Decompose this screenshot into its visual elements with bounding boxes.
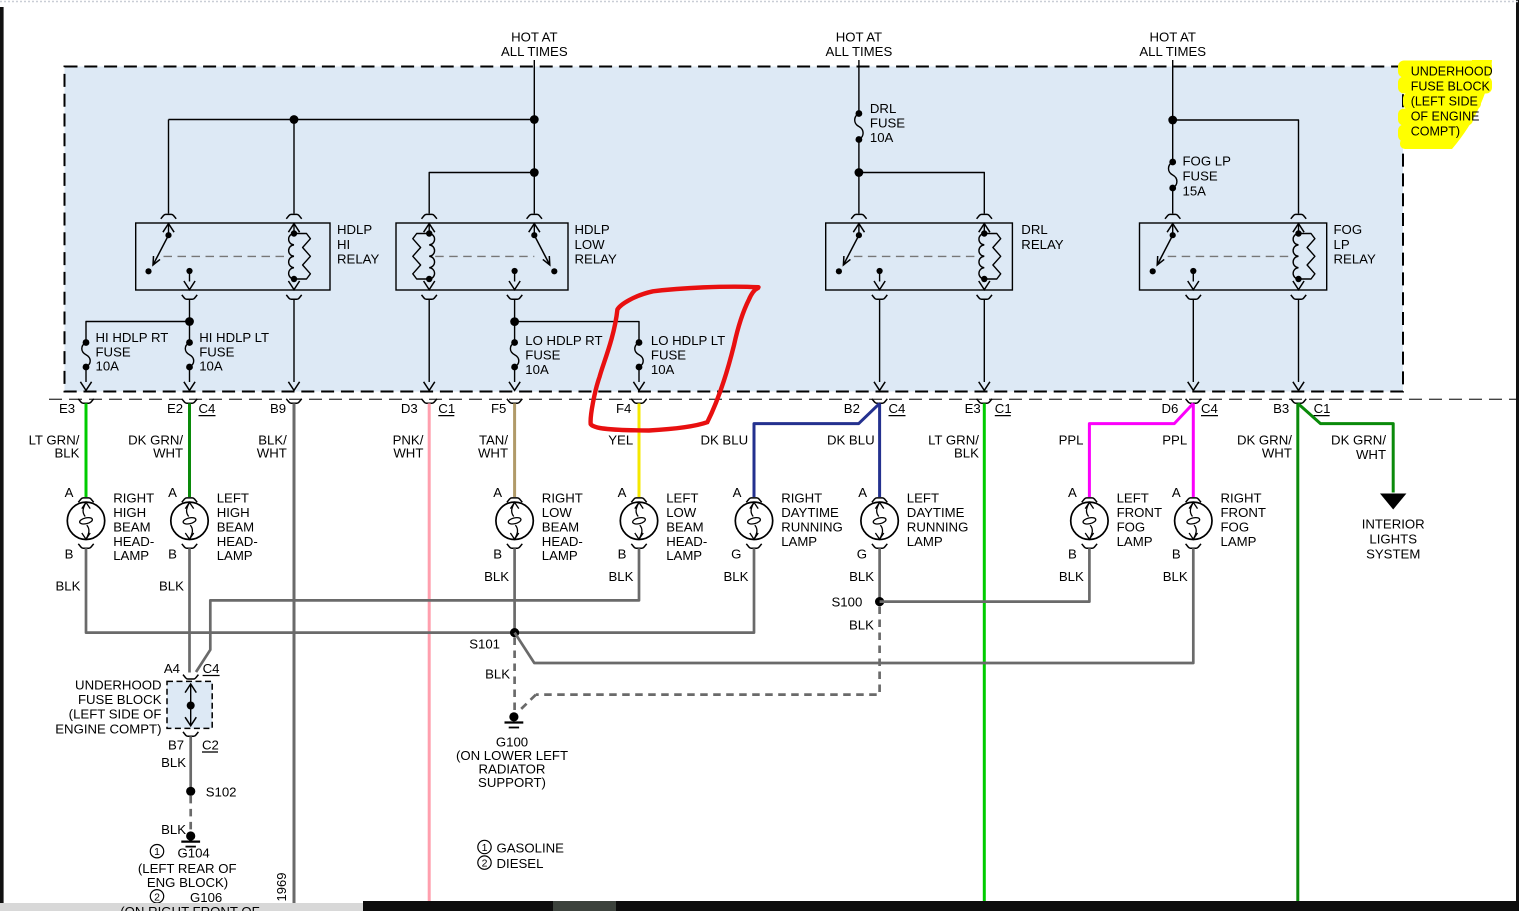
relay DRL RELAY coil pin (bottom)	[983, 279, 985, 282]
svg-text:ENG BLOCK): ENG BLOCK)	[147, 875, 228, 890]
svg-text:LAMP: LAMP	[113, 548, 149, 563]
svg-text:A: A	[733, 485, 742, 500]
wire BLK/WHT (B9 down page)	[293, 403, 296, 903]
wire branch to LO HDLP LT fuse	[515, 322, 639, 343]
svg-text:LAMP: LAMP	[781, 534, 817, 549]
svg-text:BLK: BLK	[484, 569, 509, 584]
lamp LEFT DAYTIME RUNNING LAMP connector A (top)	[872, 498, 887, 502]
svg-text:BLK: BLK	[485, 667, 510, 682]
relay HDLP HI RELAY mechanical link (dashed)	[164, 255, 289, 257]
svg-text:B: B	[65, 547, 74, 562]
relay HDLP LOW RELAY output pin (bottom)	[507, 295, 522, 299]
lamp LEFT FRONT FOG LAMP	[1071, 502, 1108, 539]
svg-text:10A: 10A	[870, 130, 894, 145]
wire ground bus right-high-beam to right-daytime (through S101)	[86, 548, 754, 632]
wire right low beam ground drop	[513, 548, 516, 632]
lamp RIGHT LOW BEAM HEADLAMP connector B (bottom)	[507, 544, 522, 548]
svg-text:YEL: YEL	[608, 432, 633, 447]
svg-text:BEAM: BEAM	[217, 519, 254, 534]
relay HDLP LOW RELAY box	[396, 223, 568, 290]
svg-text:BLK: BLK	[723, 569, 748, 584]
svg-text:FUSE BLOCK: FUSE BLOCK	[78, 692, 162, 707]
svg-text:LAMP: LAMP	[666, 548, 702, 563]
svg-text:HOT AT: HOT AT	[511, 30, 557, 45]
svg-text:F5: F5	[491, 401, 506, 416]
svg-text:10A: 10A	[525, 362, 549, 377]
svg-text:WHT: WHT	[1262, 446, 1292, 461]
node junction above LO HDLP fuses	[510, 317, 519, 326]
lamp RIGHT FRONT FOG LAMP connector B (bottom)	[1186, 544, 1201, 548]
label HI HDLP RT FUSE 10A	[96, 330, 169, 374]
relay HDLP HI RELAY output contact	[186, 268, 192, 274]
svg-text:LOW: LOW	[542, 505, 573, 520]
svg-text:FOG: FOG	[1334, 222, 1363, 237]
svg-text:A4: A4	[164, 661, 180, 676]
relay DRL RELAY switch	[856, 232, 862, 238]
wire DRL relay output to pin B2	[879, 299, 881, 382]
svg-text:A: A	[493, 485, 502, 500]
lamp LEFT DAYTIME RUNNING LAMP connector G (bottom)	[872, 544, 887, 548]
svg-text:BLK: BLK	[954, 446, 979, 461]
wire BLK B7 to S102	[189, 736, 192, 788]
node splice S101	[510, 628, 519, 637]
node splice S102	[186, 787, 195, 796]
underhood fuse block region (dashed box, light blue)	[65, 67, 1404, 392]
svg-text:15A: 15A	[1183, 184, 1207, 199]
relay FOG LP RELAY mechanical link (dashed)	[1168, 255, 1293, 257]
lamp RIGHT HIGH BEAM HEADLAMP	[67, 502, 104, 539]
svg-text:DAYTIME: DAYTIME	[781, 505, 839, 520]
connector pin E3/C1	[979, 382, 990, 391]
svg-text:ALL TIMES: ALL TIMES	[1139, 44, 1206, 59]
svg-text:HEAD-: HEAD-	[542, 534, 583, 549]
svg-text:C4: C4	[203, 661, 220, 676]
svg-text:RIGHT: RIGHT	[1221, 491, 1262, 506]
relay HDLP HI RELAY coil pin (top)	[286, 214, 301, 218]
relay HDLP HI RELAY coil pin (bottom)	[293, 279, 295, 282]
label FOG LP FUSE 15A	[1183, 154, 1232, 199]
bottom black bar	[363, 901, 1519, 911]
svg-text:BLK: BLK	[55, 579, 80, 594]
svg-text:(ON RIGHT FRONT OF: (ON RIGHT FRONT OF	[120, 904, 259, 911]
pin labels row	[59, 401, 1330, 416]
relay HDLP HI RELAY coil	[289, 234, 294, 280]
lamp LEFT FRONT FOG LAMP connector B (bottom)	[1082, 544, 1097, 548]
relay HDLP HI RELAY switch	[165, 232, 171, 238]
legend gasoline / diesel	[478, 840, 564, 871]
svg-text:LEFT: LEFT	[666, 491, 698, 506]
wire HDLP LOW relay output to fuses	[514, 299, 516, 321]
svg-text:S102: S102	[206, 785, 237, 800]
svg-text:LO HDLP RT: LO HDLP RT	[525, 333, 602, 348]
svg-text:HI HDLP RT: HI HDLP RT	[96, 330, 169, 345]
lamp RIGHT FRONT FOG LAMP connector A (top)	[1186, 498, 1201, 502]
svg-text:HI HDLP LT: HI HDLP LT	[199, 330, 269, 345]
wire DK GRN/WHT (B3 to interior lights system)	[1298, 403, 1393, 492]
lamp RIGHT LOW BEAM HEADLAMP connector A (top)	[507, 498, 522, 502]
wire feed to DRL relay switch pin	[858, 173, 860, 214]
svg-text:HIGH: HIGH	[217, 505, 250, 520]
svg-text:ALL TIMES: ALL TIMES	[501, 44, 568, 59]
svg-text:LAMP: LAMP	[542, 548, 578, 563]
svg-text:BLK: BLK	[608, 569, 633, 584]
svg-text:RELAY: RELAY	[1334, 252, 1376, 267]
svg-text:C2: C2	[202, 737, 219, 752]
node splice S100	[875, 597, 884, 606]
svg-text:BLK: BLK	[1059, 569, 1084, 584]
svg-text:C4: C4	[1201, 401, 1218, 416]
wire FOG relay coil to pin B3	[1298, 299, 1300, 382]
svg-text:FUSE: FUSE	[525, 348, 560, 363]
fuse FOG LP FUSE 15A	[1169, 159, 1176, 166]
wire LT GRN/BLK (DRL coil E3 down page)	[983, 403, 986, 911]
lamp LEFT LOW BEAM HEADLAMP connector A (top)	[631, 498, 646, 502]
wire DK BLU (B2 to left daytime running lamp)	[878, 403, 881, 497]
svg-text:RELAY: RELAY	[337, 252, 379, 267]
svg-text:FUSE: FUSE	[199, 344, 234, 359]
svg-text:BEAM: BEAM	[113, 519, 150, 534]
svg-text:G104: G104	[178, 846, 210, 861]
underhood fuse block (lower, dashed box)	[167, 681, 212, 728]
label HOT AT ALL TIMES (feed 3)	[1139, 30, 1206, 60]
wire HDLP LOW relay coil to pin D3	[428, 299, 430, 382]
connector A4/C4 into lower fuse block	[183, 675, 198, 679]
svg-text:10A: 10A	[199, 359, 223, 374]
svg-text:LP: LP	[1334, 237, 1350, 252]
svg-text:FOG LP: FOG LP	[1183, 154, 1232, 169]
wire PNK/WHT (D3 down page)	[428, 403, 431, 901]
svg-text:LAMP: LAMP	[1117, 534, 1153, 549]
svg-text:BLK: BLK	[161, 755, 186, 770]
svg-text:HOT AT: HOT AT	[1149, 30, 1195, 45]
connector pin D3/C1	[424, 382, 435, 391]
svg-text:UNDERHOOD: UNDERHOOD	[1411, 65, 1493, 79]
svg-text:COMPT): COMPT)	[1411, 125, 1460, 139]
svg-text:A: A	[618, 485, 627, 500]
svg-text:A: A	[65, 485, 74, 500]
svg-text:HDLP: HDLP	[337, 222, 372, 237]
svg-text:LAMP: LAMP	[217, 548, 253, 563]
svg-text:SUPPORT): SUPPORT)	[478, 775, 546, 790]
connector pin E3	[80, 382, 91, 391]
red hand-drawn marker circle around LO HDLP LT FUSE	[591, 287, 759, 431]
bottom grey bar	[0, 903, 363, 911]
wire HI HDLP RT fuse to pin E3	[85, 367, 87, 382]
relay HDLP HI RELAY output pin (bottom)	[182, 295, 197, 299]
relay DRL RELAY coil pin (top)	[977, 214, 992, 218]
lamp RIGHT DAYTIME RUNNING LAMP	[735, 502, 772, 539]
svg-text:(LEFT SIDE OF: (LEFT SIDE OF	[69, 707, 162, 722]
svg-text:1: 1	[154, 846, 160, 858]
connector pin F5	[509, 382, 520, 391]
svg-text:WHT: WHT	[393, 446, 423, 461]
svg-text:RELAY: RELAY	[1021, 237, 1063, 252]
svg-text:HI: HI	[337, 237, 350, 252]
svg-text:HEAD-: HEAD-	[113, 534, 154, 549]
svg-text:2: 2	[482, 858, 488, 870]
svg-text:FUSE: FUSE	[651, 348, 686, 363]
relay FOG LP RELAY output contact	[1190, 268, 1196, 274]
svg-text:WHT: WHT	[1356, 447, 1386, 462]
svg-text:G106: G106	[190, 890, 222, 905]
svg-text:DAYTIME: DAYTIME	[907, 505, 965, 520]
svg-text:RUNNING: RUNNING	[907, 519, 969, 534]
relay DRL RELAY box	[826, 223, 1013, 290]
wire feed junction to FOG LP fuse	[1172, 120, 1174, 162]
svg-text:S101: S101	[469, 637, 500, 652]
wire to HI HDLP LT fuse	[189, 322, 191, 343]
wire BLK dashed S101 to G100	[513, 638, 516, 713]
wire branch to HI HDLP RT fuse	[86, 322, 190, 343]
svg-text:G: G	[731, 547, 741, 562]
svg-text:B: B	[1068, 547, 1077, 562]
wire feed 1 vertical from HOT AT ALL TIMES	[533, 60, 535, 173]
relay FOG LP RELAY switch pin (top)	[1165, 214, 1180, 218]
wire DRL relay coil to pin E3	[983, 299, 985, 382]
relay DRL RELAY mechanical link (dashed)	[854, 255, 979, 257]
fuse LO HDLP LT FUSE 10A	[636, 339, 643, 346]
svg-text:C4: C4	[199, 401, 216, 416]
lamp RIGHT DAYTIME RUNNING LAMP connector A (top)	[746, 498, 761, 502]
svg-text:HIGH: HIGH	[113, 505, 146, 520]
relay FOG LP RELAY coil pin (bottom)	[1298, 279, 1300, 282]
ground G104	[186, 831, 195, 840]
lamp LEFT HIGH BEAM HEADLAMP connector B (bottom)	[182, 544, 197, 548]
svg-text:BLK: BLK	[849, 569, 874, 584]
svg-text:OF ENGINE: OF ENGINE	[1411, 110, 1480, 124]
svg-text:LAMP: LAMP	[907, 534, 943, 549]
svg-text:HEAD-: HEAD-	[217, 534, 258, 549]
svg-text:FUSE: FUSE	[870, 116, 905, 131]
relay DRL RELAY switch pin (top)	[851, 214, 866, 218]
wire DK GRN/WHT (E2 to left high beam)	[188, 403, 191, 497]
svg-text:LOW: LOW	[575, 237, 606, 252]
wire S101 jog to right front fog lamp	[515, 548, 1194, 663]
svg-text:DIESEL: DIESEL	[497, 856, 544, 871]
label G100 (ON LOWER LEFT RADIATOR SUPPORT)	[456, 734, 568, 790]
svg-text:DK BLU: DK BLU	[700, 432, 748, 447]
label LO HDLP RT FUSE 10A	[525, 333, 602, 377]
svg-text:FRONT: FRONT	[1221, 505, 1266, 520]
node feed junction for HDLP LOW coil	[530, 168, 539, 177]
fuse DRL FUSE 10A	[856, 110, 863, 117]
wire drop to HDLP HI relay switch pin	[168, 120, 170, 214]
relay HDLP HI RELAY switch pin (top)	[161, 214, 176, 218]
svg-text:B: B	[493, 547, 502, 562]
svg-text:B: B	[168, 547, 177, 562]
svg-text:E3: E3	[59, 401, 75, 416]
svg-text:UNDERHOOD: UNDERHOOD	[75, 678, 161, 693]
svg-text:10A: 10A	[96, 359, 120, 374]
relay FOG LP RELAY switch	[1170, 232, 1176, 238]
wire FOG LP fuse to relay switch pin	[1172, 188, 1174, 214]
svg-text:D6: D6	[1162, 401, 1179, 416]
page border left	[0, 7, 4, 906]
relay DRL RELAY output contact	[877, 268, 883, 274]
svg-text:PPL: PPL	[1059, 432, 1084, 447]
svg-text:BEAM: BEAM	[542, 519, 579, 534]
svg-text:C1: C1	[1314, 401, 1331, 416]
lamp LEFT FRONT FOG LAMP connector A (top)	[1082, 498, 1097, 502]
ground G100	[509, 712, 518, 721]
wire TAN/WHT (F5 to right low beam)	[513, 403, 516, 497]
svg-text:A: A	[168, 485, 177, 500]
relay FOG LP RELAY coil pin (top)	[1291, 214, 1306, 218]
svg-text:C4: C4	[889, 401, 906, 416]
svg-text:A: A	[1068, 485, 1077, 500]
svg-text:(LEFT REAR OF: (LEFT REAR OF	[138, 861, 237, 876]
svg-text:DK BLU: DK BLU	[827, 432, 875, 447]
svg-text:BEAM: BEAM	[666, 519, 703, 534]
top faint dotted line	[0, 1, 1519, 3]
connector pin B2/C4	[874, 382, 885, 391]
label UNDERHOOD FUSE BLOCK (LEFT SIDE OF ENGINE COMPT)	[55, 678, 161, 737]
wire FOG relay output to pin D6	[1192, 299, 1194, 382]
svg-text:FUSE BLOCK: FUSE BLOCK	[1411, 80, 1491, 94]
lamp LEFT LOW BEAM HEADLAMP connector B (bottom)	[631, 544, 646, 548]
svg-text:LOW: LOW	[666, 505, 697, 520]
wire LO HDLP LT fuse to pin F4	[638, 367, 640, 382]
svg-text:LIGHTS: LIGHTS	[1369, 531, 1417, 546]
svg-text:2: 2	[154, 891, 160, 903]
svg-text:ENGINE COMPT): ENGINE COMPT)	[55, 721, 161, 736]
svg-text:B9: B9	[270, 401, 286, 416]
svg-text:BLK: BLK	[159, 579, 184, 594]
note text UNDERHOOD FUSE BLOCK (LEFT SIDE OF ENGINE COMPT)	[1411, 65, 1493, 139]
wire left daytime ground drop	[878, 548, 881, 601]
node feed junction at HDLP HI coil	[290, 115, 299, 124]
svg-text:ALL TIMES: ALL TIMES	[826, 44, 893, 59]
page border right	[1516, 0, 1519, 911]
svg-text:B2: B2	[844, 401, 860, 416]
svg-text:C1: C1	[995, 401, 1012, 416]
wire HI HDLP LT fuse to pin E2	[189, 367, 191, 382]
lamp LEFT HIGH BEAM HEADLAMP	[171, 502, 208, 539]
svg-text:F4: F4	[616, 401, 631, 416]
svg-text:RUNNING: RUNNING	[781, 519, 843, 534]
svg-text:BLK: BLK	[849, 617, 874, 632]
svg-text:WHT: WHT	[257, 446, 287, 461]
connector pin D6/C4	[1188, 382, 1199, 391]
label DRL FUSE 10A	[870, 101, 905, 145]
relay FOG LP RELAY output pin (bottom)	[1186, 295, 1201, 299]
fuse HI HDLP LT FUSE 10A	[186, 339, 193, 346]
node FOG feed junction	[1168, 116, 1177, 125]
svg-text:WHT: WHT	[153, 446, 183, 461]
wire left low beam ground to underhood fuse block A4	[196, 548, 639, 672]
svg-text:BLK: BLK	[1163, 569, 1188, 584]
svg-text:D3: D3	[401, 401, 418, 416]
svg-text:10A: 10A	[651, 362, 675, 377]
svg-text:A: A	[858, 485, 867, 500]
svg-text:DRL: DRL	[870, 101, 896, 116]
svg-text:DRL: DRL	[1021, 222, 1047, 237]
svg-text:HDLP: HDLP	[575, 222, 610, 237]
svg-text:LEFT: LEFT	[907, 491, 939, 506]
relay FOG LP RELAY coil	[1293, 234, 1298, 280]
svg-text:B7: B7	[168, 737, 184, 752]
connector B7/C2 out of lower fuse block	[183, 732, 198, 736]
svg-text:RELAY: RELAY	[575, 252, 617, 267]
wire DRL fuse to junction	[858, 140, 860, 173]
svg-text:FOG: FOG	[1221, 519, 1250, 534]
lamp RIGHT HIGH BEAM HEADLAMP connector A (top)	[78, 498, 93, 502]
wire DK GRN/WHT (B3 down page)	[1296, 403, 1299, 911]
svg-text:RIGHT: RIGHT	[781, 491, 822, 506]
svg-text:HEAD-: HEAD-	[666, 534, 707, 549]
svg-text:PPL: PPL	[1162, 432, 1187, 447]
node junction above HI HDLP fuses	[185, 317, 194, 326]
wire BLK dashed S102 to G104	[189, 796, 192, 830]
label HI HDLP LT FUSE 10A	[199, 330, 269, 374]
relay HDLP LOW RELAY switch	[531, 232, 537, 238]
relay DRL RELAY coil	[979, 234, 984, 280]
relay HDLP LOW RELAY mechanical link (dashed)	[435, 255, 534, 257]
connector pin F4	[633, 382, 644, 391]
wire feed to DRL relay coil	[859, 173, 984, 214]
svg-text:SYSTEM: SYSTEM	[1366, 546, 1420, 561]
svg-text:FOG: FOG	[1117, 519, 1146, 534]
svg-text:1: 1	[482, 842, 488, 854]
svg-text:GASOLINE: GASOLINE	[497, 840, 565, 855]
yellow highlighter blob	[1398, 60, 1492, 149]
svg-text:DK GRN/: DK GRN/	[1331, 433, 1386, 448]
label HOT AT ALL TIMES (feed 2)	[826, 30, 893, 60]
arrow to interior lights system	[1380, 494, 1406, 510]
node internal junction	[187, 702, 195, 710]
svg-text:FUSE: FUSE	[1183, 169, 1218, 184]
svg-text:FRONT: FRONT	[1117, 505, 1162, 520]
wire feed 2 vertical (DRL)	[858, 60, 860, 114]
connector row dashed line	[49, 398, 1519, 400]
svg-text:S100: S100	[831, 594, 862, 609]
lamp LEFT LOW BEAM HEADLAMP	[620, 502, 657, 539]
wire BLK dashed S100 to G100	[536, 607, 880, 695]
fuse HI HDLP RT FUSE 10A	[83, 339, 90, 346]
svg-text:LO HDLP LT: LO HDLP LT	[651, 333, 725, 348]
svg-text:1969: 1969	[274, 873, 289, 902]
wire S100 to left front fog lamp ground	[880, 548, 1090, 601]
relay FOG LP RELAY box	[1140, 223, 1327, 290]
wire feed to HDLP LOW relay switch pin	[533, 173, 535, 214]
svg-text:E3: E3	[965, 401, 981, 416]
wire HDLP HI relay coil to pin B9	[293, 299, 295, 382]
lower fuse block internal wire	[190, 684, 192, 726]
svg-text:A: A	[1172, 485, 1181, 500]
relay HDLP LOW RELAY coil pin (top)	[422, 214, 437, 218]
fuse LO HDLP RT FUSE 10A	[514, 322, 516, 343]
svg-text:LEFT: LEFT	[1117, 491, 1149, 506]
relay HDLP LOW RELAY coil pin (bottom)	[428, 279, 430, 282]
wire LT GRN/BLK (E3 to right high beam)	[85, 403, 88, 497]
wire feed to FOG LP relay coil	[1173, 120, 1299, 214]
wire LO HDLP RT fuse to pin F5	[514, 367, 516, 382]
lamp RIGHT LOW BEAM HEADLAMP	[496, 502, 533, 539]
relay HDLP LOW RELAY switch pin (top)	[527, 214, 542, 218]
label G104 (LEFT REAR OF ENG BLOCK)	[138, 845, 237, 905]
label HOT AT ALL TIMES (feed 1)	[501, 30, 568, 60]
connector pin B9	[288, 382, 299, 391]
node feed junction at feed 1	[530, 115, 539, 124]
wire feed to HDLP LOW relay coil	[429, 173, 534, 214]
lamp RIGHT HIGH BEAM HEADLAMP connector B (bottom)	[78, 544, 93, 548]
wire PPL (D6 to right front fog lamp)	[1192, 403, 1195, 497]
svg-text:B3: B3	[1273, 401, 1289, 416]
wire YEL (F4 to left low beam)	[638, 403, 641, 497]
relay HDLP LOW RELAY output contact	[511, 268, 517, 274]
lamp LEFT HIGH BEAM HEADLAMP connector A (top)	[182, 498, 197, 502]
svg-text:BLK: BLK	[161, 822, 186, 837]
